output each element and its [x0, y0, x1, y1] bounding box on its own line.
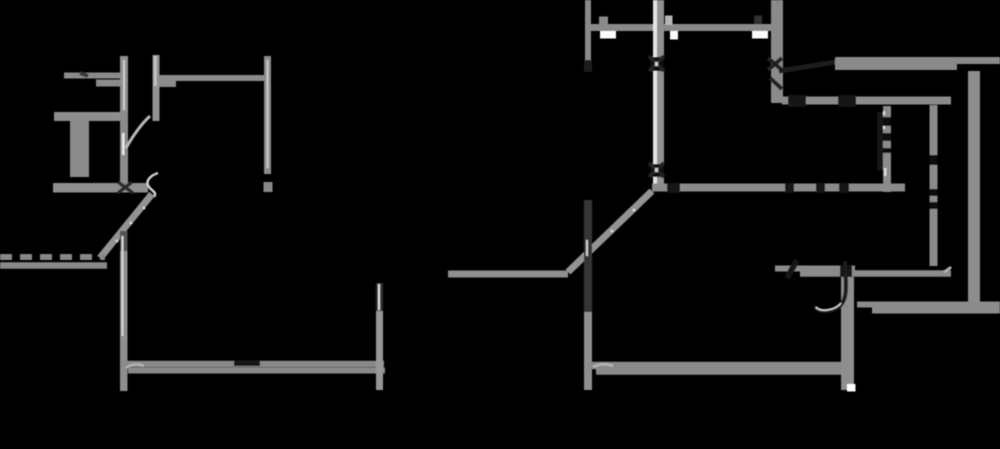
transistor Q1 base wire (solid): [0, 262, 107, 269]
wire W3 vertical drop at x=267: [264, 56, 271, 174]
bump above J2: [665, 16, 673, 26]
dark overlays on W14: [667, 183, 680, 193]
faint connector W8 to W9: [779, 62, 836, 71]
junction dot (white) at bottom of W16: [847, 384, 856, 392]
resistor R1 right edge: [120, 112, 128, 191]
dark marks on W8: [768, 58, 782, 89]
dark patch left of W11: [877, 112, 883, 170]
end hook of W17: [944, 267, 951, 272]
wire W11 vertical x=887: [883, 106, 891, 192]
bottom rail (right circuit): [588, 366, 849, 372]
wire W9 top-right horizontal: [835, 61, 1000, 68]
junction dot J2 (white): [670, 31, 678, 40]
capacitor C1 left plate: [120, 56, 128, 116]
top rail of right circuit: [586, 24, 772, 31]
gaps on W11: [883, 117, 891, 126]
dark squiggle J-curve: [815, 261, 846, 311]
wire W18 bottom-right horizontal y=307: [857, 305, 1000, 311]
junction dot J3 (white): [752, 31, 768, 39]
transistor Q2 vertical bar x=588 (dark top, gray bottom): [584, 200, 592, 390]
stroke inside R1 (curved pen mark): [126, 116, 150, 148]
bright core on R1 right edge: [122, 133, 125, 155]
corner knot sparkle on rail: [126, 364, 144, 368]
wire W1 top-left lead of C1: [64, 73, 121, 83]
dark tick on left rail: [234, 360, 260, 366]
wire W2 from C1 to drop wire W3: [159, 78, 268, 84]
wire W17 horizontal y=271: [775, 266, 855, 272]
wire W7 center vertical drop x=655: [649, 0, 664, 188]
bump above J3: [754, 16, 762, 24]
transistor Q1 collector diagonal: [100, 194, 152, 258]
transistor Q1 base wire (dashed): [0, 254, 105, 260]
resistor R1 left bar (thick double stroke): [70, 119, 89, 177]
wire W13 right rail vertical x=971: [968, 71, 980, 307]
gaps on W12: [930, 155, 938, 165]
transistor Q2 diagonal: [568, 191, 652, 272]
dark X mark at R1 bottom-right: [118, 182, 133, 193]
wire W8 vertical drop x=775: [771, 0, 783, 103]
highlight of J-curve: [816, 303, 841, 310]
wire W16 vertical x=849: [841, 277, 854, 390]
bottom rail (left circuit): [121, 364, 385, 371]
junction dot J1 (white): [600, 31, 616, 39]
sparkles on W11: [883, 111, 885, 115]
sparkle blob on right rail near left corner: [593, 364, 613, 367]
notch on right rail: [974, 169, 980, 189]
wire W5 into Q2 base: [448, 271, 568, 278]
resistor R1 bottom bar: [53, 183, 148, 193]
node A terminal blob at end of W3: [264, 182, 273, 192]
wire W12 vertical x=933: [930, 105, 938, 266]
squiggle at R1 bottom-right corner: [147, 173, 158, 197]
dark overlays on W17: [787, 260, 797, 278]
dark overlays on W10: [788, 95, 806, 107]
dark X mark on W7 lower: [650, 164, 664, 177]
wire W4 vertical at x=379.5 (dark top, gray bottom): [376, 283, 383, 390]
transistor Q1 emitter vertical at x=123.5: [120, 231, 128, 391]
wire W14 horizontal y=187: [652, 184, 905, 192]
bump above J1: [599, 17, 608, 25]
wire W10 horizontal y=100: [782, 97, 951, 105]
dark X mark on W7 upper: [650, 57, 664, 71]
wire W6 vertical from top edge at x=588: [585, 0, 591, 60]
capacitor C1 right plate: [153, 55, 160, 121]
dark end blob of W6: [584, 60, 592, 72]
resistor R1 top bar: [54, 112, 126, 121]
